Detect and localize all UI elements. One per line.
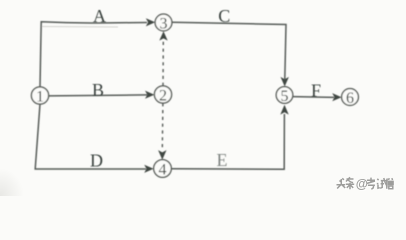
arrowhead E into node 5 [280,105,288,115]
arrowhead A into node 3 [146,18,155,26]
node 2 [154,86,171,104]
label D [90,151,103,171]
glyph 试 [377,178,388,188]
svg-text:B: B [92,80,104,100]
wire C (node3 right, then down to node5) [172,22,286,79]
arrowhead D into node 4 [144,165,153,173]
wire D (node1 down, then right to node4) [35,104,146,169]
svg-text:4: 4 [159,161,167,178]
svg-text:1: 1 [36,88,44,105]
glyph 条 [346,177,354,189]
dummy arrow node2 to node4 (dashed) [161,103,164,149]
glyph 僧 [386,178,393,189]
wire B (node1 right to node2) [49,95,147,96]
svg-text:F: F [311,80,321,100]
node 3 [155,14,172,32]
glyph @ [356,177,368,191]
wire F (node5 right to node6) [293,96,334,99]
svg-text:A: A [93,6,106,26]
svg-text:3: 3 [160,15,168,32]
arrowhead dummy 2-3 into node 3 [159,31,167,40]
label B [92,80,104,100]
arrowhead B into node 2 [145,91,154,99]
svg-text:C: C [218,6,230,26]
wire A scan ghost line [42,26,118,29]
label F [311,80,321,100]
arrowhead dummy 2-4 into node 4 [158,150,166,160]
node 1 [31,87,48,105]
arrowhead C into node 5 [281,77,289,87]
svg-text:5: 5 [281,88,289,105]
node 6 [342,89,359,107]
wire E (node4 right, then up to node5) [171,114,284,169]
label E [217,150,228,170]
glyph 头 [337,178,346,188]
svg-text:6: 6 [346,90,354,107]
label C [218,6,230,26]
svg-text:@: @ [356,177,368,191]
watermark "头条 @考试僧" bottom right [337,178,394,190]
node 4 [154,160,172,179]
svg-text:E: E [217,150,228,170]
svg-text:D: D [90,151,103,171]
svg-text:2: 2 [159,87,167,104]
label A [93,6,106,26]
glyph 考 [367,178,375,189]
wire A (node1 up, then right to node3) [40,22,147,87]
node 5 [276,87,293,105]
arrowhead F into node 6 [332,93,341,101]
dummy arrow node2 to node3 (dashed) [162,41,164,86]
